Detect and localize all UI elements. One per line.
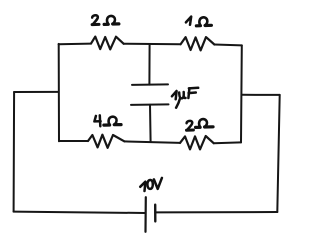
label R3 value digit 4 <box>94 116 100 122</box>
wire outer-left vertical <box>13 92 16 212</box>
label R1 unit ohm <box>104 16 119 24</box>
label B1 value digit 1 <box>140 182 145 191</box>
label C1 unit F <box>188 88 189 98</box>
label R4 unit ohm <box>195 119 213 127</box>
label C1 value digit 1 <box>172 91 177 99</box>
wire outer-right horizontal <box>242 94 280 96</box>
wire left inner vertical <box>58 44 60 141</box>
wire bottom-left run <box>14 212 145 213</box>
label R2 unit ohm <box>196 17 211 25</box>
wire outer-right vertical <box>277 95 279 212</box>
label C1 unit mu <box>179 92 184 98</box>
wire bottom-right segment <box>214 141 241 144</box>
wire bottom-middle segment <box>125 141 181 143</box>
resistor R2 <box>181 37 215 50</box>
wire right inner vertical <box>240 45 243 142</box>
wire center stub top <box>148 44 150 85</box>
label B1 unit V <box>154 178 162 189</box>
wire top-right segment <box>214 44 241 47</box>
wire top-middle segment <box>124 43 181 46</box>
resistor R1 <box>91 37 124 50</box>
capacitor C1 bottom plate <box>131 103 169 106</box>
wire center stub bottom <box>149 105 152 142</box>
wire top-left segment <box>59 43 91 46</box>
wire bottom-left segment <box>59 140 88 142</box>
battery B1 negative plate <box>144 197 147 232</box>
label R1 value digit 2 <box>92 15 98 24</box>
battery B1 positive plate <box>154 205 157 222</box>
resistor R4 <box>180 136 214 149</box>
resistor R3 <box>88 135 125 148</box>
wire outer-left horizontal <box>14 91 59 93</box>
label B1 value digit 0 <box>147 180 152 189</box>
label R4 value digit 2 <box>187 121 193 130</box>
label R3 unit ohm <box>104 117 122 125</box>
label R2 value digit 1 <box>186 17 191 25</box>
capacitor C1 top plate <box>132 83 168 86</box>
wire bottom-right run <box>155 211 277 213</box>
